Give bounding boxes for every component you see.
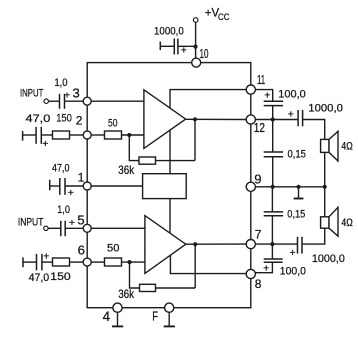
capacitor 0,15 ch1 plates xyxy=(264,152,283,157)
pin 10 xyxy=(192,58,201,67)
svg-text:+: + xyxy=(181,45,187,57)
IC package outline xyxy=(87,63,251,308)
capacitor 47,0 (ch2): terminal bar xyxy=(22,257,24,267)
wire: pin 11 to C 100,0 top xyxy=(255,90,272,102)
svg-text:7: 7 xyxy=(255,227,262,241)
svg-text:1: 1 xyxy=(78,171,85,185)
svg-text:50: 50 xyxy=(107,243,119,255)
capacitor 1,0 input 2 plates xyxy=(61,221,65,236)
wire: pin 5 to op-amp A2 noninverting input xyxy=(91,227,145,229)
capacitor 100,0 (ch1) plates xyxy=(264,101,283,105)
wire: pin 11 bootstrap into A1 top edge xyxy=(170,90,246,109)
common terminal on pin 9 line xyxy=(298,187,300,199)
speaker BA2 xyxy=(321,217,329,228)
node: A1 output xyxy=(193,117,197,121)
node: junction speakers xyxy=(323,185,327,189)
svg-text:8: 8 xyxy=(255,277,262,291)
terminal +Vcc xyxy=(193,18,198,23)
svg-text:1,0: 1,0 xyxy=(57,204,70,216)
node: A2 output xyxy=(193,242,197,246)
node: junction on pin 12 line xyxy=(271,117,275,121)
wire: pin 6 to resistor 50 ch2 xyxy=(91,261,104,263)
resistor 150 (ch2) xyxy=(53,258,70,266)
capacitor 1000,0 (out ch1) plates xyxy=(298,110,303,126)
wire: bar to C plate xyxy=(50,185,60,187)
wire: C1 to pin 3 xyxy=(65,100,84,102)
capacitor 47,0 (ripple) terminal bar xyxy=(49,180,51,191)
svg-text:47,0: 47,0 xyxy=(52,162,70,174)
svg-text:INPUT: INPUT xyxy=(20,88,44,100)
pin 11 xyxy=(246,85,255,94)
wire: 0,15 to pin 9 line xyxy=(272,157,274,187)
svg-text:4: 4 xyxy=(103,309,111,324)
pin 2 xyxy=(83,131,91,139)
INPUT 2 terminal xyxy=(44,226,48,230)
wire: R50 to op-amp A1 inverting input xyxy=(122,134,145,136)
wire: C to resistor 150 xyxy=(41,134,52,136)
wire: R150 to pin 2 xyxy=(70,134,84,136)
wire: C plate to pin10 lead xyxy=(178,45,196,47)
node: junction common terminal xyxy=(296,185,300,189)
svg-text:0,15: 0,15 xyxy=(288,149,306,161)
node: feedback tap ch2 xyxy=(127,260,131,264)
node: feedback tap ch1 xyxy=(127,133,131,137)
svg-text:36k: 36k xyxy=(118,287,135,301)
capacitor 0,15 (ch2) top lead xyxy=(271,187,273,212)
svg-text:+: + xyxy=(43,250,49,262)
svg-text:100,0: 100,0 xyxy=(278,88,306,100)
svg-text:CC: CC xyxy=(218,12,230,23)
svg-text:47,0: 47,0 xyxy=(26,113,51,125)
wire: input1 to C1 xyxy=(48,100,59,102)
capacitor 47,0 ripple plates xyxy=(60,178,65,195)
svg-text:36k: 36k xyxy=(118,163,135,177)
op-amp A1 xyxy=(144,90,186,149)
capacitor 47,0 plates xyxy=(36,127,41,144)
wire: feedback down-right to 36k (ch2) xyxy=(130,262,140,288)
wire: A1 output to pin 12 xyxy=(186,118,247,120)
capacitor 1000,0 plates xyxy=(174,39,178,55)
wire: bar to C plate xyxy=(23,134,36,136)
svg-text:F: F xyxy=(152,310,158,324)
wire: C out to speaker 1 xyxy=(303,120,325,140)
svg-text:+: + xyxy=(288,108,294,120)
wire: pin 3 to op-amp A1 noninverting input xyxy=(91,100,144,102)
node: junction on pin 7 line xyxy=(270,242,274,246)
wire: 36k ch2 to output node xyxy=(156,287,196,289)
capacitor 100,0 ch2 plates xyxy=(264,259,283,262)
wire: feedback down-right to 36k (ch1) xyxy=(129,135,139,161)
svg-text:6: 6 xyxy=(78,243,85,258)
wire: pin 8 bootstrap into A2 bottom edge xyxy=(170,255,246,273)
wire: output node down to feedback ch2 xyxy=(194,244,196,288)
svg-text:2: 2 xyxy=(76,114,83,128)
svg-text:1,0: 1,0 xyxy=(54,77,67,89)
speaker BA1 xyxy=(321,139,329,152)
svg-text:1000,0: 1000,0 xyxy=(312,253,345,265)
wire: pin 12 output line xyxy=(255,119,298,121)
wire: 0,15 ch2 to pin 7 line xyxy=(271,216,273,244)
wire: C to pin 5 xyxy=(65,227,83,229)
svg-text:+: + xyxy=(263,262,269,274)
ground at pin 4 xyxy=(117,312,119,326)
wire: A2 output to pin 7 xyxy=(186,243,246,245)
pin 6 xyxy=(83,258,91,266)
wire: R150 to pin 6 xyxy=(70,261,84,263)
capacitor 1000,0 (out ch2) plates xyxy=(298,237,303,254)
svg-text:100,0: 100,0 xyxy=(280,265,306,277)
capacitor 100,0 (ch2) top lead xyxy=(271,244,273,259)
svg-text:+: + xyxy=(69,217,75,229)
wire: A1 bottom edge to bias block top xyxy=(169,130,171,174)
capacitor 1000,0 (supply filter): terminal bar xyxy=(159,42,161,51)
svg-text:150: 150 xyxy=(56,112,72,124)
wire: bias block bottom to A2 top edge xyxy=(169,199,171,233)
svg-text:5: 5 xyxy=(77,212,84,227)
svg-text:12: 12 xyxy=(254,121,265,135)
capacitor 0,15 ch2 plates xyxy=(264,212,283,216)
resistor 150 (ch1) xyxy=(53,131,70,139)
pin 3 xyxy=(83,97,91,105)
pin 5 xyxy=(83,224,91,232)
capacitor 47,0 ch2 plates xyxy=(37,254,42,271)
svg-text:+: + xyxy=(42,138,48,150)
capacitor 0,15 (ch1) top lead xyxy=(272,120,274,153)
svg-text:+: + xyxy=(68,187,74,199)
svg-text:50: 50 xyxy=(108,117,118,129)
wire: output node down to feedback ch1 xyxy=(194,119,196,160)
pin 1 xyxy=(83,182,91,190)
svg-text:+: + xyxy=(264,90,270,102)
capacitor 47,0 (ch1 series): terminal bar xyxy=(22,131,24,141)
wire: pin 1 to bias block xyxy=(91,185,142,187)
svg-text:4Ω: 4Ω xyxy=(341,141,352,153)
resistor 50 (ch1) xyxy=(105,131,122,139)
wire: bar to C plate xyxy=(23,261,37,263)
pin 7 xyxy=(246,240,255,249)
svg-text:150: 150 xyxy=(50,271,70,283)
svg-text:11: 11 xyxy=(257,72,265,87)
resistor 36k (ch2) xyxy=(140,284,156,291)
wire: input2 to C xyxy=(48,227,61,229)
wire: speaker 1 to mid line xyxy=(324,152,326,186)
resistor 50 (ch2) xyxy=(105,258,122,266)
pin 9 xyxy=(246,182,255,191)
svg-text:+: + xyxy=(64,89,70,101)
wire: 36k to output node ch1 xyxy=(156,160,196,162)
bias block U1 xyxy=(143,174,187,199)
wire: C 100,0 ch2 to pin 8 xyxy=(255,262,272,272)
op-amp A2 xyxy=(145,216,186,274)
svg-text:1000,0: 1000,0 xyxy=(154,25,184,37)
svg-text:9: 9 xyxy=(254,172,261,187)
pin 4 xyxy=(113,303,122,312)
wire: pin 7 output line xyxy=(255,243,297,245)
pin 8 xyxy=(246,269,255,278)
wire: bar to C plate xyxy=(160,45,174,47)
wire: R50 to op-amp A2 inverting input xyxy=(122,261,146,263)
pin F xyxy=(165,303,174,312)
wire: +Vcc lead down to pin 10 xyxy=(195,22,197,58)
wire: pin 2 to resistor 50 xyxy=(91,134,104,136)
svg-text:10: 10 xyxy=(200,46,209,61)
wire: C to pin 1 xyxy=(65,185,83,187)
wire: speaker 2 top to mid line xyxy=(324,187,326,217)
svg-text:47,0: 47,0 xyxy=(29,272,50,284)
wire: pin 9 mid line xyxy=(255,186,324,188)
wire: C to resistor 150 ch2 xyxy=(42,261,53,263)
ground at pin F xyxy=(168,312,170,326)
wire: C 100,0 bottom to pin 12 line xyxy=(272,106,274,120)
resistor 36k (ch1) xyxy=(139,157,156,164)
INPUT 1 terminal xyxy=(44,99,48,103)
svg-text:INPUT: INPUT xyxy=(18,217,44,229)
node: junction caps on pin 9 line xyxy=(271,185,275,189)
node: junction of filter cap and +Vcc lead xyxy=(193,45,197,49)
svg-text:0,15: 0,15 xyxy=(287,208,305,220)
wire: C out ch2 to speaker 2 xyxy=(302,228,325,244)
svg-text:4Ω: 4Ω xyxy=(341,217,352,229)
svg-text:+: + xyxy=(290,247,296,259)
pin 12 xyxy=(246,115,255,124)
capacitor C 1,0 input 1 plates xyxy=(60,94,65,109)
svg-text:1000,0: 1000,0 xyxy=(308,103,343,115)
svg-text:3: 3 xyxy=(73,86,80,101)
